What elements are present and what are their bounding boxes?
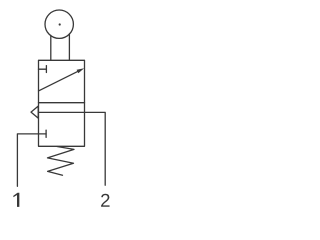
- port 1 connection line: [17, 134, 46, 186]
- valve body outline: [39, 60, 85, 146]
- push-button center dot: [59, 23, 61, 25]
- flow path arrowhead (top box): [77, 68, 85, 73]
- actuator stem right line: [68, 34, 70, 60]
- port label 2: [101, 194, 109, 207]
- blocked port marker (top box) T-bar: [45, 66, 47, 73]
- flow path diagonal line (top box): [39, 71, 80, 91]
- position divider line: [39, 102, 85, 104]
- exhaust open triangle (bottom box): [31, 106, 38, 118]
- port label 1: [13, 193, 19, 207]
- return spring zigzag: [48, 147, 75, 176]
- flow line to port 2 (bottom box): [39, 112, 106, 185]
- blocked port marker (top box) horizontal: [39, 68, 47, 70]
- push-button actuator circle: [45, 10, 73, 38]
- actuator stem left line: [50, 35, 52, 60]
- blocked port marker (bottom box) T-bar: [45, 130, 47, 137]
